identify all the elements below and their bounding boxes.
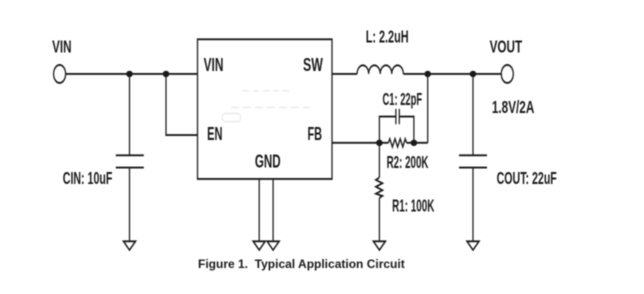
svg-text:EN: EN [207,125,222,145]
svg-text:C1: 22pF: C1: 22pF [383,91,423,110]
svg-text:R2: 200K: R2: 200K [387,154,429,173]
svg-text:VIN: VIN [204,56,224,76]
svg-text:VOUT: VOUT [490,38,523,57]
svg-text:FB: FB [308,125,323,145]
svg-text:CIN: 10uF: CIN: 10uF [63,170,113,189]
svg-text:COUT: 22uF: COUT: 22uF [497,170,557,189]
svg-text:R1: 100K: R1: 100K [392,197,435,216]
svg-text:GND: GND [255,152,281,172]
svg-text:1.8V/2A: 1.8V/2A [492,99,535,118]
svg-text:L: 2.2uH: L: 2.2uH [366,28,409,47]
svg-text:Figure 1. Typical Application: Figure 1. Typical Application Circuit [198,257,405,271]
svg-text:SW: SW [303,56,323,76]
svg-text:VIN: VIN [52,38,71,57]
